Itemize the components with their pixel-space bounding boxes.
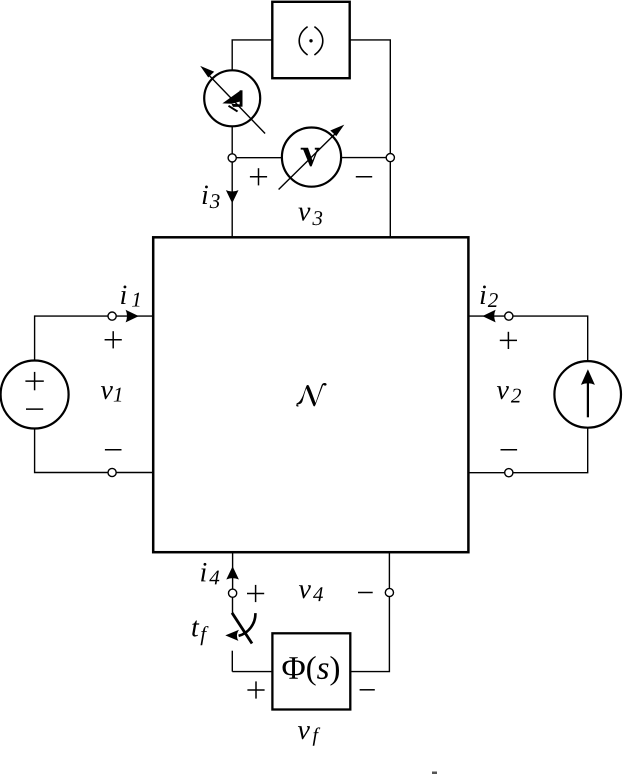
wire voltmeter right to node B: [341, 157, 390, 159]
current label i2: [481, 286, 498, 308]
minus label of v2: [501, 449, 518, 451]
wire from multiplier right down to node B: [350, 40, 391, 154]
arrowhead i3: [226, 190, 239, 203]
wire from multiplier left to ammeter top: [232, 40, 272, 71]
node D: [108, 468, 116, 476]
left: wire source top to node C: [35, 315, 109, 317]
voltage label v4: [299, 585, 323, 601]
network box N: [153, 237, 468, 552]
node A (top-left junction): [228, 154, 236, 162]
voltmeter M2: [279, 125, 345, 190]
current label i1: [121, 286, 139, 307]
wire switch bottom to feedback box left: [232, 671, 272, 673]
voltage label v3: [298, 208, 322, 226]
left: wire node C to network box with arrow i1: [116, 315, 153, 317]
minus label of v4: [358, 592, 373, 594]
node F: [505, 469, 513, 477]
wire node B down to network box: [389, 162, 391, 238]
node E: [505, 312, 513, 320]
current source I1: [554, 361, 621, 428]
plus label of v3: [250, 168, 267, 185]
page fragment mark: [432, 772, 437, 774]
time label t_f: [192, 621, 208, 646]
arrowhead i4: [226, 566, 239, 579]
node H: [385, 588, 393, 596]
current label i4: [201, 563, 219, 585]
left: wire node to source: [34, 315, 36, 361]
wire ammeter bottom to node A: [231, 126, 233, 153]
voltage label v2: [497, 386, 521, 402]
right: wire source bottom to node F: [513, 428, 588, 473]
plus label of v2: [500, 332, 517, 349]
current label i3: [203, 186, 220, 209]
ammeter M1: [200, 66, 265, 134]
minus label of v3: [356, 176, 372, 178]
arrowhead i1: [126, 310, 139, 323]
plus label of vf: [247, 681, 264, 698]
right: wire node F to network box: [468, 472, 505, 474]
voltage label v1: [101, 386, 121, 401]
bottom: wire network box down to node G with arrow i4: [232, 552, 234, 589]
multiplier box U1 (·): [272, 2, 349, 78]
right: wire network box to node E with arrow i2: [468, 315, 505, 317]
voltage source V1: [1, 361, 69, 429]
plus label of v4: [247, 585, 264, 602]
arrowhead i2: [482, 310, 495, 323]
switch S1 (closes at t_f): [225, 597, 255, 671]
bottom: wire network box down through node H to feedback box right: [388, 552, 390, 588]
minus label of v1: [105, 449, 122, 451]
feedback box U2 Phi(s): [272, 633, 350, 709]
plus label of v1: [105, 331, 122, 348]
node B (top-right junction): [386, 154, 394, 162]
left: wire node D to network box: [116, 472, 153, 474]
right: wire node E to source top: [513, 316, 588, 361]
node C: [108, 312, 116, 320]
wire node A down to network box with current arrow i3: [231, 162, 233, 237]
node G: [229, 589, 237, 597]
left: wire source bottom to node D: [35, 428, 109, 472]
minus label of vf: [360, 689, 375, 691]
wire node A to voltmeter left: [232, 157, 282, 159]
voltage label vf: [298, 726, 320, 746]
